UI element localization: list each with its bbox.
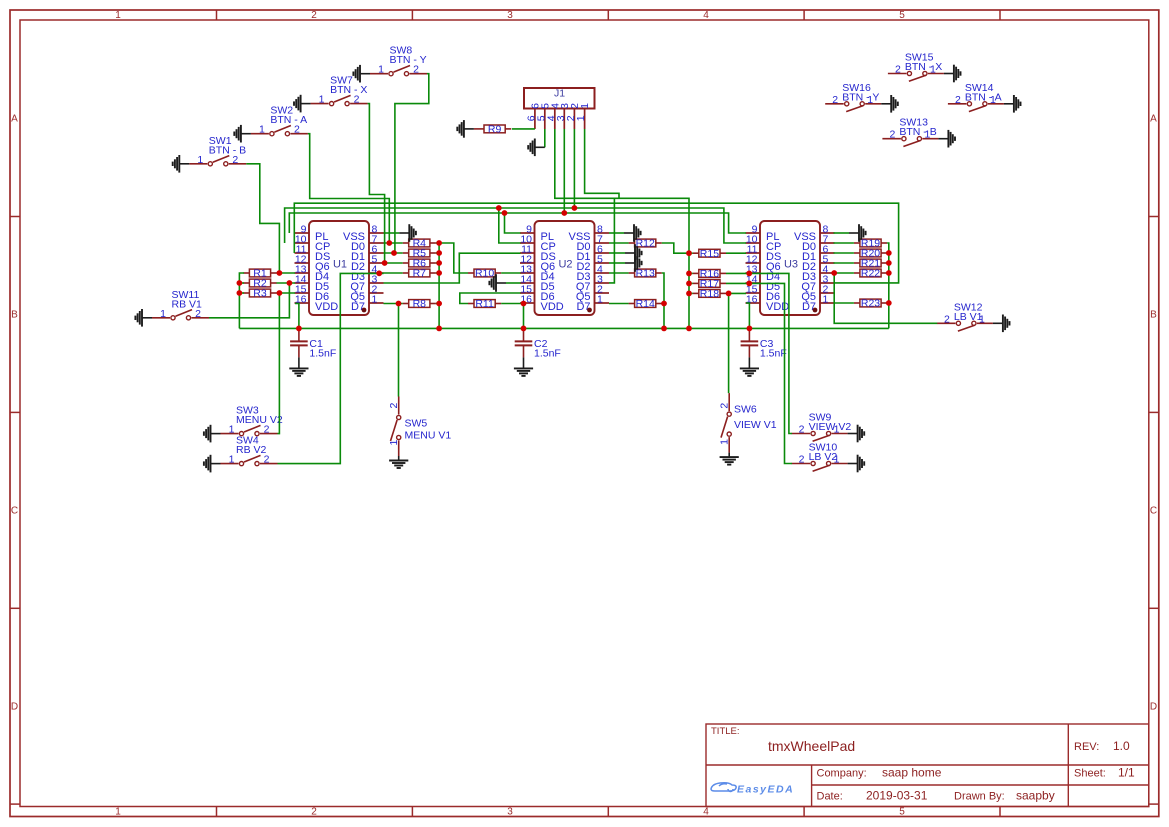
wire U1 D1 row — [384, 252, 403, 254]
net CP bus line — [285, 208, 746, 243]
svg-text:VDD: VDD — [766, 301, 789, 313]
wire U2.VDD drop — [523, 304, 525, 329]
svg-text:Sheet:: Sheet: — [1074, 768, 1106, 780]
svg-text:A: A — [11, 114, 18, 125]
svg-text:VIEW V2: VIEW V2 — [809, 421, 852, 433]
svg-text:saap home: saap home — [882, 766, 942, 780]
svg-text:R18: R18 — [700, 288, 719, 300]
svg-text:1: 1 — [579, 103, 591, 109]
wire U1 D2 row — [384, 262, 403, 264]
ground at U3.VSS — [834, 232, 850, 234]
wire U3.D5 to SW10 — [749, 283, 792, 463]
wire R1-R3 left column — [239, 273, 244, 328]
svg-text:R14: R14 — [636, 298, 655, 310]
resistor R12 — [629, 242, 635, 244]
resistor R3 — [243, 292, 249, 294]
wire R11 to U2.VDD — [501, 303, 523, 305]
svg-text:saapby: saapby — [1016, 789, 1055, 803]
shift register U2 — [535, 221, 595, 315]
svg-text:RB V1: RB V1 — [172, 298, 203, 310]
wire R16 left — [689, 272, 693, 274]
wire U2 D0 row — [609, 242, 629, 244]
svg-text:2: 2 — [944, 313, 950, 325]
switch SW3 — [221, 433, 239, 435]
net VDD from J1.4 — [555, 129, 689, 328]
svg-text:1.5nF: 1.5nF — [309, 347, 336, 359]
wire R13 to rail drop — [662, 273, 664, 328]
svg-text:C: C — [1150, 506, 1157, 517]
svg-text:1/1: 1/1 — [1118, 766, 1135, 780]
switch SW10 — [832, 463, 848, 465]
ground at U1.VSS — [384, 232, 400, 234]
svg-text:TITLE:: TITLE: — [711, 726, 740, 737]
resistor R4 — [403, 242, 409, 244]
resistor R6 — [403, 262, 409, 264]
ground at U2.D1 — [609, 252, 625, 254]
connector J1 — [524, 88, 595, 109]
wire U3.D6 to SW6 — [728, 293, 730, 393]
wire U1.Q7 to U2.DS — [384, 253, 521, 283]
J1 pin 2 — [573, 109, 575, 130]
svg-text:1: 1 — [372, 294, 378, 306]
net DS bus line — [294, 203, 898, 283]
wire R9 to J1.6 — [512, 128, 535, 130]
wire SW8 to U1.D1 — [395, 74, 429, 253]
svg-text:REV:: REV: — [1074, 741, 1099, 753]
svg-text:BTN - B: BTN - B — [899, 126, 936, 138]
J1 pin 4 — [554, 109, 556, 130]
svg-text:B: B — [1150, 310, 1157, 321]
wire U3.D3 to SW12 — [834, 273, 937, 323]
wire U2 D3 row — [609, 272, 629, 274]
svg-text:R9: R9 — [488, 124, 502, 136]
svg-text:1: 1 — [719, 439, 731, 445]
wire U3.D4 to SW9 — [749, 273, 792, 433]
wire U2.Q7 riser — [609, 198, 614, 283]
net VDD from J1.1 — [585, 129, 619, 198]
wire SW7 to U1.D2 — [368, 104, 385, 263]
svg-text:2: 2 — [799, 424, 805, 436]
switch SW12 — [977, 322, 993, 324]
svg-text:2: 2 — [311, 10, 317, 21]
wire U1 D7 row — [384, 303, 403, 305]
wire U1 D6 row — [277, 292, 296, 294]
svg-text:SW6: SW6 — [734, 404, 757, 416]
wire R15 to U3.DS — [726, 252, 746, 254]
wire U3 D7 row — [834, 302, 854, 304]
svg-text:1.5nF: 1.5nF — [760, 347, 787, 359]
svg-text:R15: R15 — [700, 248, 719, 260]
wire R16 to U3.D4 — [726, 272, 749, 274]
wire SW3 to U1.D6 — [278, 293, 280, 434]
svg-text:LB V1: LB V1 — [954, 311, 983, 323]
svg-text:J1: J1 — [554, 88, 565, 100]
wire VDD to R10 — [439, 243, 468, 273]
shift register U1 — [309, 221, 369, 315]
svg-text:2019-03-31: 2019-03-31 — [866, 789, 928, 803]
switch SW13 — [922, 138, 938, 140]
svg-text:Drawn By:: Drawn By: — [954, 791, 1005, 803]
wire R10 to U2.D4 — [501, 272, 520, 274]
svg-text:C: C — [11, 506, 18, 517]
svg-text:3: 3 — [507, 10, 513, 21]
resistor R2 — [243, 282, 249, 284]
resistor R10 — [468, 272, 474, 274]
svg-text:4: 4 — [703, 807, 709, 818]
wire R12 to VDD column — [662, 243, 689, 253]
wire SW1 to U1.D4 — [246, 164, 279, 273]
svg-text:2: 2 — [832, 94, 838, 106]
resistor R7 — [403, 272, 409, 274]
svg-text:1: 1 — [197, 154, 203, 166]
junction dots — [277, 270, 283, 276]
resistor R13 — [629, 272, 635, 274]
resistor R15 — [693, 252, 699, 254]
svg-text:1: 1 — [115, 10, 121, 21]
svg-text:LB V2: LB V2 — [809, 451, 838, 463]
svg-text:2: 2 — [895, 64, 901, 76]
resistor R8 — [403, 303, 409, 305]
svg-text:2: 2 — [311, 807, 317, 818]
EasyEDA logo — [711, 783, 736, 792]
wire R17 left — [689, 282, 693, 284]
svg-text:1: 1 — [115, 807, 121, 818]
resistor R20 — [854, 252, 860, 254]
svg-text:U3: U3 — [784, 259, 798, 271]
svg-text:2: 2 — [719, 403, 731, 409]
capacitor C2 — [523, 328, 525, 341]
svg-text:5: 5 — [899, 10, 905, 21]
title block — [706, 724, 1149, 807]
svg-text:BTN - A: BTN - A — [965, 91, 1002, 103]
wire U1 D4 row — [277, 272, 296, 274]
svg-text:1: 1 — [229, 454, 235, 466]
resistor R19 — [854, 242, 860, 244]
svg-text:MENU V1: MENU V1 — [405, 430, 452, 442]
resistor R22 — [854, 272, 860, 274]
switch SW16 — [865, 103, 881, 105]
wire U1 D0 row — [384, 242, 403, 244]
svg-text:R7: R7 — [413, 268, 427, 280]
wire R18 left — [689, 292, 693, 294]
svg-text:BTN - A: BTN - A — [270, 114, 307, 126]
svg-text:VIEW V1: VIEW V1 — [734, 419, 777, 431]
svg-text:1: 1 — [823, 294, 829, 306]
svg-text:1: 1 — [319, 94, 325, 106]
switch SW11 — [152, 317, 170, 319]
switch SW2 — [251, 133, 269, 135]
svg-text:EasyEDA: EasyEDA — [737, 784, 794, 796]
net VDD column U3 right — [887, 243, 889, 328]
resistor R11 — [468, 303, 474, 305]
svg-text:A: A — [1150, 114, 1157, 125]
svg-text:2: 2 — [799, 454, 805, 466]
wire U3 D1 row — [834, 252, 854, 254]
svg-text:BTN - Y: BTN - Y — [842, 91, 879, 103]
switch SW4 — [221, 463, 239, 465]
resistor R23 — [854, 302, 860, 304]
svg-text:1: 1 — [575, 115, 587, 121]
svg-text:2: 2 — [388, 403, 400, 409]
net VDD rail — [239, 327, 888, 329]
svg-text:R13: R13 — [636, 268, 655, 280]
switch SW7 — [311, 103, 329, 105]
ground at U2.VSS — [609, 232, 624, 234]
svg-text:VDD: VDD — [541, 301, 564, 313]
wire R18 to U3.D6 — [726, 292, 746, 294]
svg-text:R12: R12 — [636, 238, 655, 250]
svg-text:5: 5 — [899, 807, 905, 818]
svg-text:tmxWheelPad: tmxWheelPad — [768, 738, 855, 754]
net VDD column U1 — [436, 243, 439, 328]
wire R17 to U3.D5 — [726, 282, 749, 284]
switch SW8 — [370, 73, 388, 75]
svg-text:BTN - X: BTN - X — [330, 84, 367, 96]
resistor R5 — [403, 252, 409, 254]
svg-text:R10: R10 — [475, 268, 494, 280]
J1 pin 3 — [563, 109, 565, 130]
svg-text:BTN - X: BTN - X — [905, 61, 942, 73]
svg-text:1: 1 — [378, 64, 384, 76]
J1 pin 5 — [544, 109, 546, 130]
svg-text:Date:: Date: — [817, 791, 843, 803]
resistor R17 — [693, 282, 699, 284]
net PL bus line — [289, 213, 746, 233]
svg-text:R8: R8 — [413, 298, 427, 310]
switch SW6 — [728, 393, 730, 411]
wire SW11 to U1.D5 — [209, 283, 289, 318]
wire SW4 to U1.D3 — [278, 273, 384, 463]
J1 pin 6 — [534, 109, 536, 130]
svg-text:R3: R3 — [253, 288, 267, 300]
svg-text:D: D — [11, 702, 18, 713]
switch SW15 — [928, 73, 944, 75]
shift register U3 — [760, 221, 820, 315]
svg-text:SW5: SW5 — [405, 418, 428, 430]
resistor R9 — [478, 128, 484, 130]
svg-text:1.0: 1.0 — [1113, 739, 1130, 753]
svg-text:VDD: VDD — [315, 301, 338, 313]
wire U2.PL riser — [505, 213, 521, 233]
resistor R18 — [693, 292, 699, 294]
resistor R21 — [854, 262, 860, 264]
switch SW1 — [189, 163, 207, 165]
svg-text:Company:: Company: — [817, 768, 867, 780]
switch SW14 — [988, 103, 1004, 105]
wire U1.D7 to SW5 — [398, 304, 400, 397]
svg-text:B: B — [11, 310, 18, 321]
wire U3 D3 row — [834, 272, 854, 274]
capacitor C3 — [748, 328, 750, 341]
wire J1.5 to ground — [544, 129, 546, 147]
ground at R9 — [474, 128, 478, 130]
wire J1.3 riser — [563, 129, 565, 213]
switch SW9 — [832, 433, 848, 435]
svg-text:U2: U2 — [558, 259, 572, 271]
svg-text:1: 1 — [388, 440, 400, 446]
svg-text:2: 2 — [889, 129, 895, 141]
svg-text:R11: R11 — [475, 298, 494, 310]
J1 pin 1 — [584, 109, 586, 130]
svg-text:BTN - B: BTN - B — [209, 144, 246, 156]
svg-text:3: 3 — [507, 807, 513, 818]
wire U3 D2 row — [834, 262, 854, 264]
wire U1 D3 row — [384, 272, 403, 274]
svg-text:RB V2: RB V2 — [236, 444, 267, 456]
wire U2.CP riser — [499, 208, 521, 243]
wire J1.2 riser — [573, 129, 575, 208]
ground at U2.D2 — [609, 262, 625, 264]
wire U3.VDD drop — [746, 303, 749, 328]
svg-text:1: 1 — [160, 308, 166, 320]
wire U2 D7 row — [609, 303, 629, 305]
svg-text:4: 4 — [703, 10, 709, 21]
svg-text:U1: U1 — [333, 259, 347, 271]
wire U1.VDD drop — [295, 304, 299, 329]
resistor R1 — [243, 272, 249, 274]
svg-text:R22: R22 — [861, 268, 880, 280]
svg-text:2: 2 — [955, 94, 961, 106]
svg-text:D: D — [1150, 702, 1157, 713]
capacitor C1 — [298, 328, 300, 341]
ground at U2.D5 — [506, 282, 521, 284]
wire U3 D0 row — [834, 242, 854, 244]
resistor R16 — [693, 272, 699, 274]
svg-text:MENU V2: MENU V2 — [236, 414, 283, 426]
wire R14 right — [662, 303, 664, 305]
wire U1 D5 row — [277, 282, 296, 284]
svg-text:R23: R23 — [861, 298, 880, 310]
ground at J1.5 — [535, 146, 545, 148]
wire SW2 to U1.D0 — [308, 134, 389, 243]
svg-text:1: 1 — [259, 124, 265, 136]
svg-text:1: 1 — [229, 424, 235, 436]
wire R11 to U2.D6 — [460, 293, 521, 304]
switch SW5 — [398, 397, 400, 415]
svg-text:BTN - Y: BTN - Y — [390, 54, 427, 66]
resistor R14 — [629, 303, 635, 305]
svg-text:1.5nF: 1.5nF — [534, 347, 561, 359]
svg-text:1: 1 — [597, 294, 603, 306]
